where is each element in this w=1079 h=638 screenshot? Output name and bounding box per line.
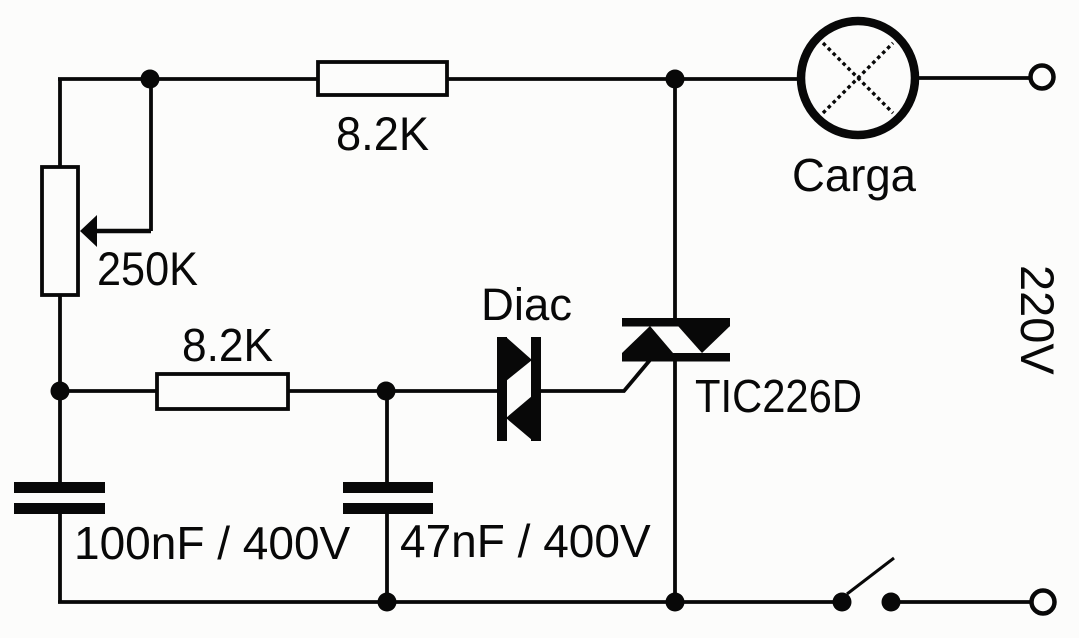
svg-text:220V: 220V bbox=[1011, 265, 1064, 375]
wire left rail upper bbox=[58, 79, 62, 167]
diac D1 lower triangle bbox=[506, 396, 532, 440]
lamp LP1 Carga circle bbox=[801, 21, 915, 135]
node junction top right bbox=[666, 70, 685, 89]
triac Q1 left triangle bbox=[622, 326, 673, 353]
node junction mid right bbox=[377, 382, 396, 401]
svg-text:8.2K: 8.2K bbox=[336, 107, 429, 160]
potentiometer P1 250K body bbox=[42, 167, 78, 295]
wire mid rail left segment bbox=[60, 389, 157, 393]
resistor R1 8.2K body bbox=[318, 62, 447, 95]
node junction bottom C2 bbox=[378, 593, 397, 612]
capacitor C1 top plate bbox=[14, 482, 105, 493]
wire capacitor C2 lower lead bbox=[385, 513, 389, 602]
capacitor C2 bottom plate bbox=[343, 503, 433, 514]
wire potentiometer wiper horizontal bbox=[95, 229, 151, 234]
switch S1 right contact bbox=[882, 593, 901, 612]
potentiometer P1 wiper arrowhead bbox=[80, 215, 97, 247]
wire bottom rail right segment bbox=[891, 600, 1031, 604]
triac Q1 bottom bar bbox=[622, 353, 730, 362]
triac Q1 top bar bbox=[622, 318, 730, 327]
svg-text:250K: 250K bbox=[97, 242, 198, 295]
wire capacitor C2 upper lead bbox=[385, 391, 389, 484]
wire gate from diac to triac bbox=[541, 360, 650, 391]
wire left rail below potentiometer bbox=[58, 295, 62, 392]
wire triac main vertical upper bbox=[673, 79, 677, 320]
svg-text:100nF / 400V: 100nF / 400V bbox=[74, 517, 351, 569]
capacitor C1 bottom plate bbox=[14, 503, 105, 514]
wire mid rail between R2 and diac bbox=[288, 389, 498, 393]
wire bottom rail bbox=[58, 600, 842, 604]
label 220V bbox=[1011, 265, 1064, 375]
terminal upper right bbox=[1031, 66, 1054, 89]
svg-text:Carga: Carga bbox=[792, 149, 916, 201]
triac Q1 right triangle bbox=[678, 326, 730, 353]
switch S1 lever bbox=[847, 558, 894, 594]
resistor R2 8.2K body bbox=[157, 374, 288, 409]
svg-text:47nF / 400V: 47nF / 400V bbox=[400, 515, 651, 567]
diac D1 left bar bbox=[497, 337, 507, 441]
node junction mid left bbox=[51, 382, 70, 401]
wire left rail bottom drop bbox=[58, 513, 62, 602]
node junction top left bbox=[141, 70, 160, 89]
wire potentiometer wiper vertical bbox=[149, 79, 153, 231]
switch S1 left contact bbox=[833, 593, 852, 612]
wire top rail right segment to terminal bbox=[914, 76, 1031, 80]
capacitor C2 top plate bbox=[343, 482, 433, 493]
node junction bottom triac bbox=[666, 593, 685, 612]
lamp LP1 X cross line 1 bbox=[823, 43, 893, 113]
terminal lower right bbox=[1032, 591, 1055, 614]
diac D1 upper triangle bbox=[506, 337, 532, 381]
wire top rail left segment bbox=[58, 77, 318, 81]
wire left rail capacitor drop bbox=[58, 392, 62, 484]
svg-text:Diac: Diac bbox=[481, 279, 572, 330]
wire triac main vertical lower bbox=[673, 360, 677, 602]
svg-text:TIC226D: TIC226D bbox=[695, 370, 862, 422]
wire top rail middle segment bbox=[447, 77, 802, 81]
diac D1 right bar bbox=[531, 337, 541, 441]
svg-text:8.2K: 8.2K bbox=[182, 319, 273, 371]
lamp LP1 X cross line 2 bbox=[823, 43, 893, 113]
